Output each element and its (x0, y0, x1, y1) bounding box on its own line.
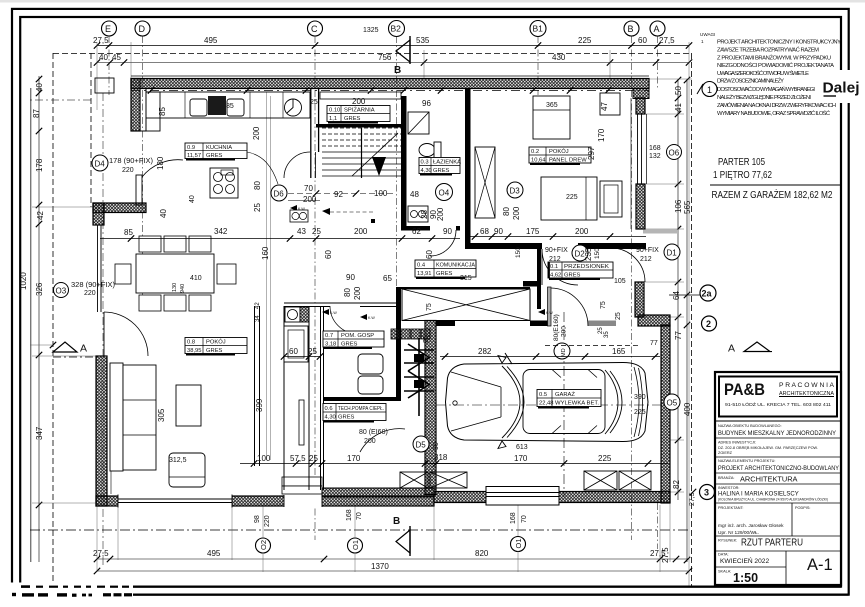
lintel dashed line under top wall (131, 90, 649, 92)
bottom dashed outline (53, 585, 691, 587)
svg-text:100: 100 (374, 189, 388, 198)
living room left exterior wall (96, 356, 107, 506)
kitchen sink right basin (227, 99, 244, 116)
svg-text:2a: 2a (702, 289, 713, 299)
lintel crossed box 0 (400, 472, 428, 488)
door D4 swing (142, 160, 183, 177)
svg-text:WYLEWKA BET.: WYLEWKA BET. (555, 401, 599, 407)
hood crease lines (451, 372, 501, 431)
svg-text:PANEL DREW: PANEL DREW (549, 158, 587, 164)
svg-text:ZAMÓWIENIA NA OKNA I DRZW ZWER: ZAMÓWIENIA NA OKNA I DRZW ZWERYFIKOWAĆ I… (717, 102, 836, 109)
svg-text:305: 305 (157, 408, 166, 422)
bedroom desk (600, 93, 620, 115)
wall slot (299, 400, 304, 445)
svg-text:4,62: 4,62 (550, 273, 561, 279)
svg-text:SPIŻARNIA: SPIŻARNIA (344, 107, 375, 114)
svg-text:PRZEDSIONEK: PRZEDSIONEK (564, 264, 609, 270)
svg-text:225: 225 (598, 454, 612, 463)
bedroom left partition (465, 89, 471, 249)
svg-text:170: 170 (514, 454, 528, 463)
svg-text:B: B (393, 516, 400, 527)
svg-text:45: 45 (112, 53, 121, 62)
top dimension line 2 (97, 62, 689, 64)
svg-text:Z PROJEKTAMI BRANŻOWYMI. W PRZ: Z PROJEKTAMI BRANŻOWYMI. W PRZYPADKU (717, 55, 831, 62)
grid bubble B2 (389, 21, 405, 37)
hidden grid dash line x103 (102, 93, 104, 568)
svg-text:400: 400 (683, 402, 692, 416)
window O3 glazing (97, 225, 99, 312)
windshield arcs (502, 366, 520, 438)
notes paragraph (717, 40, 841, 118)
svg-text:B: B (394, 65, 401, 76)
svg-text:80: 80 (253, 181, 262, 190)
grid line C (314, 36, 316, 540)
svg-text:170: 170 (347, 454, 361, 463)
bottom bubble O1 (348, 538, 363, 553)
svg-text:DOSTOSOWAĆ DO WYMAGAŃ WYBRANEG: DOSTOSOWAĆ DO WYMAGAŃ WYBRANEGI (717, 86, 815, 93)
svg-text:D1: D1 (667, 249, 678, 258)
svg-text:O3: O3 (56, 287, 67, 296)
ref circle D4 (92, 155, 108, 171)
svg-text:495: 495 (207, 549, 221, 558)
svg-text:85: 85 (158, 107, 167, 116)
svg-text:90: 90 (346, 273, 355, 282)
bathroom bottom partition (401, 226, 460, 231)
svg-text:40: 40 (159, 209, 168, 218)
svg-text:85: 85 (226, 103, 234, 110)
svg-text:312,5: 312,5 (169, 457, 187, 464)
left dashed outline (52, 53, 54, 586)
svg-text:0.9: 0.9 (187, 145, 195, 151)
garage left wall (425, 321, 436, 495)
svg-text:GRES: GRES (436, 271, 453, 277)
svg-text:11,57: 11,57 (187, 153, 201, 159)
headlight (453, 401, 457, 405)
car in garage (446, 353, 649, 449)
top dimension line 1 (97, 45, 689, 47)
svg-text:BUDYNEK MIESZKALNY JEDNORODZIN: BUDYNEK MIESZKALNY JEDNORODZINNY (718, 430, 836, 437)
svg-text:105: 105 (614, 278, 626, 285)
svg-text:200: 200 (512, 206, 521, 220)
svg-text:220: 220 (84, 290, 96, 297)
svg-text:82: 82 (672, 480, 681, 489)
label box POKOJ living (185, 338, 247, 355)
svg-text:430: 430 (552, 53, 566, 62)
grid line B2 (396, 36, 398, 290)
garage top wall segments (436, 321, 455, 327)
svg-text:820: 820 (475, 549, 489, 558)
svg-text:K.W: K.W (330, 311, 337, 315)
section marker B bottom (393, 516, 410, 556)
svg-text:1: 1 (701, 39, 704, 44)
ref circle O6 (667, 145, 682, 160)
svg-text:80 (EI60): 80 (EI60) (359, 429, 388, 436)
svg-text:91-510 ŁÓDŹ UL. KRECIA 7 TEL.: 91-510 ŁÓDŹ UL. KRECIA 7 TEL. 603 802 41… (725, 401, 831, 408)
left wall step stub (93, 203, 146, 213)
top roof edge line (131, 75, 649, 77)
bedroom tall closet with X (475, 147, 495, 218)
svg-text:O6: O6 (669, 149, 680, 158)
ref circle D1 (664, 244, 680, 260)
tech room top partition (324, 397, 401, 401)
car antenna (505, 353, 512, 364)
ref circle O5 garage right (664, 394, 680, 410)
svg-text:2: 2 (706, 319, 711, 329)
svg-text:132: 132 (649, 153, 661, 160)
section marker A left (50, 342, 98, 357)
svg-text:0.1: 0.1 (550, 264, 558, 270)
bottom-left frame fade (watermark) (0, 583, 849, 607)
svg-text:K.W: K.W (546, 311, 553, 315)
svg-text:170: 170 (597, 128, 606, 142)
door D6 swing (284, 152, 310, 178)
svg-text:1: 1 (707, 85, 712, 95)
svg-text:ADRES INWESTYCJI:: ADRES INWESTYCJI: (718, 441, 756, 445)
svg-text:495: 495 (204, 36, 218, 45)
lintel crossed box 2 (584, 471, 617, 490)
svg-text:60: 60 (289, 347, 298, 356)
niche lintel crossed box (402, 289, 530, 321)
svg-text:UWAGI: UWAGI (700, 32, 715, 37)
door EI60 swing (551, 288, 588, 326)
garage centerlines (563, 312, 565, 497)
svg-text:175: 175 (526, 227, 540, 236)
svg-text:1020: 1020 (19, 272, 28, 290)
svg-text:D: D (139, 24, 146, 34)
left roof dashed step (90, 53, 92, 207)
kitchen-stairs partition (double line) (310, 89, 312, 178)
bedroom wardrobe top (533, 96, 570, 139)
svg-text:75: 75 (600, 301, 607, 309)
corridor bottom partition east (396, 287, 530, 289)
svg-text:70: 70 (304, 184, 313, 193)
ref circle O3 (54, 283, 69, 298)
grid line B (631, 36, 633, 540)
dining chairs bottom (139, 295, 161, 311)
svg-text:77: 77 (674, 331, 683, 340)
exterior step at door D1 (grey) (643, 230, 678, 234)
svg-text:390: 390 (634, 394, 646, 401)
ref circle D5 (413, 436, 429, 452)
svg-text:1,1: 1,1 (329, 116, 337, 122)
dining chairs top (139, 236, 161, 252)
svg-text:A-1: A-1 (807, 556, 833, 574)
grid bubble C (308, 21, 323, 36)
hatched cabinet (300, 307, 309, 322)
svg-text:GRES: GRES (564, 273, 581, 279)
svg-text:KOMUNIKACJA: KOMUNIKACJA (436, 263, 475, 269)
svg-text:150: 150 (515, 247, 522, 258)
entrance steps (282, 477, 322, 486)
grid bubble B (624, 21, 639, 36)
svg-text:GRES: GRES (341, 342, 358, 348)
left upper exterior wall (131, 79, 140, 132)
svg-text:KWIECIEŃ 2022: KWIECIEŃ 2022 (720, 556, 769, 565)
svg-text:212: 212 (549, 256, 561, 263)
heat pump riser tree (404, 338, 434, 416)
window O6 glazing (637, 114, 639, 184)
svg-text:168: 168 (649, 145, 661, 152)
label box POM GOSP (323, 331, 384, 348)
svg-text:0.8: 0.8 (187, 340, 195, 346)
svg-text:A: A (728, 343, 735, 355)
svg-text:27,5: 27,5 (93, 549, 109, 558)
garage door opening (486, 487, 559, 506)
label box POKOJ bedroom (529, 147, 591, 164)
ref circle O4 (436, 184, 453, 201)
svg-text:POM. GOSP: POM. GOSP (341, 333, 374, 339)
svg-text:940: 940 (180, 284, 186, 293)
svg-text:0.2: 0.2 (531, 149, 539, 155)
right dim chain 1 (677, 79, 679, 500)
svg-text:200: 200 (353, 286, 362, 300)
svg-text:90+FIX: 90+FIX (636, 247, 659, 254)
bedroom nightstand (600, 181, 622, 217)
svg-text:168: 168 (346, 509, 353, 521)
svg-text:PODPIS:: PODPIS: (795, 506, 810, 510)
interior dim line kitchen-corridor (288, 193, 396, 195)
bottom dim line 1 (97, 558, 689, 560)
svg-text:50: 50 (674, 86, 683, 95)
svg-text:282: 282 (478, 347, 492, 356)
svg-text:410: 410 (190, 275, 202, 282)
svg-text:ZGIERZ: ZGIERZ (718, 451, 733, 455)
svg-text:P R A C O W N I A: P R A C O W N I A (779, 383, 834, 389)
door EI60 przedsionek-garage leaf (548, 287, 552, 326)
grid line B1 (537, 36, 539, 95)
svg-text:MD: MD (561, 348, 567, 357)
svg-text:48: 48 (410, 190, 419, 199)
svg-text:ZAWSZE TRZEBA ROZPATRYWAĆ RAZE: ZAWSZE TRZEBA ROZPATRYWAĆ RAZEM (717, 47, 819, 54)
svg-text:613: 613 (516, 444, 528, 451)
grid bubble E (102, 21, 117, 36)
svg-text:GRES: GRES (206, 153, 223, 159)
svg-text:3,18: 3,18 (325, 342, 336, 348)
door D1 swing (612, 248, 645, 282)
svg-text:RAZEM Z GARAŻEM 182,62 M2: RAZEM Z GARAŻEM 182,62 M2 (712, 188, 833, 201)
top-right corner wall block (633, 89, 649, 99)
door O3 swing arc (104, 312, 148, 356)
svg-text:TECH.POMPA CIEPŁ.: TECH.POMPA CIEPŁ. (338, 406, 384, 412)
svg-text:42: 42 (36, 211, 45, 220)
svg-text:200: 200 (561, 326, 568, 337)
svg-text:25: 25 (309, 454, 318, 463)
svg-text:70: 70 (521, 515, 528, 523)
kitchen corner inner face (131, 89, 146, 131)
lintel crossed box 1 (430, 472, 467, 488)
svg-text:13,91: 13,91 (417, 271, 432, 277)
svg-text:A: A (654, 24, 660, 34)
rear window arcs (605, 370, 618, 434)
svg-text:GRES: GRES (338, 415, 355, 421)
door D5 swing (360, 429, 405, 452)
svg-text:399: 399 (255, 398, 264, 412)
svg-text:40: 40 (189, 195, 196, 203)
svg-text:200: 200 (354, 227, 368, 236)
svg-text:KUCHNIA: KUCHNIA (206, 145, 232, 151)
svg-text:347: 347 (35, 426, 44, 440)
svg-text:34: 34 (255, 315, 261, 322)
svg-text:168: 168 (510, 512, 517, 524)
svg-text:PROJEKT ARCHITEKTONICZNO-BUDOW: PROJEKT ARCHITEKTONICZNO-BUDOWLANY (718, 465, 840, 472)
svg-text:O1: O1 (514, 538, 523, 548)
svg-text:85: 85 (124, 228, 133, 237)
svg-text:87: 87 (32, 109, 41, 118)
svg-text:D5: D5 (416, 441, 427, 450)
top dashed outline line (53, 53, 691, 55)
svg-text:326: 326 (35, 282, 44, 296)
svg-text:60: 60 (324, 250, 333, 259)
svg-text:25: 25 (253, 203, 262, 212)
trunk curves (634, 367, 639, 437)
svg-text:25: 25 (312, 227, 321, 236)
svg-text:342: 342 (214, 227, 228, 236)
svg-text:DATA:: DATA: (718, 553, 729, 557)
svg-text:0.5: 0.5 (539, 392, 547, 398)
grid line D (142, 36, 144, 300)
svg-text:200: 200 (436, 207, 445, 221)
svg-text:(KOLONIA BRUŻYCA UL. CHABROWA: (KOLONIA BRUŻYCA UL. CHABROWA 24 95/70 A… (718, 497, 828, 502)
svg-text:43: 43 (297, 227, 306, 236)
svg-text:98: 98 (254, 515, 261, 523)
pom gosp left partition (320, 306, 322, 490)
svg-text:68: 68 (480, 227, 489, 236)
bathroom vent shaft top (408, 112, 429, 134)
top screen edge (0, 0, 865, 3)
right mid exterior wall (635, 282, 644, 317)
svg-text:1:50: 1:50 (733, 571, 758, 585)
door D2 swing (542, 249, 578, 285)
svg-text:Dalej: Dalej (823, 80, 860, 97)
svg-text:41: 41 (674, 103, 683, 112)
svg-text:O4: O4 (439, 189, 450, 198)
svg-text:235: 235 (584, 247, 593, 261)
svg-text:60: 60 (425, 250, 434, 259)
left dim chain 3 (38, 76, 40, 205)
left dim line total 1020 (30, 88, 32, 562)
washbasin pair (408, 206, 428, 222)
svg-text:130: 130 (172, 283, 178, 292)
stairs up arrow head (372, 157, 386, 176)
svg-text:225: 225 (578, 36, 592, 45)
svg-text:K.W: K.W (368, 316, 375, 320)
svg-text:225: 225 (634, 409, 646, 416)
kitchen counter left run (146, 92, 160, 131)
logo box PA&B (719, 377, 837, 417)
bathroom door swing (430, 230, 456, 256)
svg-text:B1: B1 (533, 24, 544, 34)
svg-text:200: 200 (364, 438, 376, 445)
svg-text:0.4: 0.4 (417, 263, 426, 269)
right dashed outline (691, 53, 693, 586)
svg-text:INWESTOR:: INWESTOR: (718, 486, 739, 490)
svg-text:365: 365 (546, 102, 558, 109)
svg-text:565: 565 (683, 200, 692, 214)
section marker B top (394, 36, 410, 76)
svg-text:POKÓJ: POKÓJ (206, 339, 226, 346)
ref circle D3 (507, 182, 523, 198)
svg-text:315: 315 (460, 275, 472, 282)
svg-text:200: 200 (252, 126, 261, 140)
spizarnia bottom partition (316, 124, 402, 128)
svg-text:GARAŻ: GARAŻ (555, 391, 575, 398)
svg-text:80: 80 (343, 288, 352, 297)
svg-text:297: 297 (587, 146, 596, 160)
door D4 leaf (136, 175, 142, 205)
svg-text:PA&B: PA&B (724, 381, 765, 399)
ref circle 2a (700, 285, 716, 301)
svg-text:0.6: 0.6 (325, 406, 333, 412)
svg-text:mgr inż. arch. Jarosław Głose: mgr inż. arch. Jarosław Głosek (718, 523, 784, 529)
svg-text:165: 165 (612, 347, 626, 356)
right dim line totals (686, 79, 688, 562)
grid column marker square (95, 78, 114, 93)
roof pillars (552, 370, 597, 434)
svg-text:90+FIX: 90+FIX (545, 247, 568, 254)
ref circle D6 (271, 185, 287, 201)
Dalej overlay link (816, 70, 865, 103)
lintel crossed box 3 (619, 471, 651, 490)
ref circle 3 (700, 485, 715, 500)
svg-text:70: 70 (356, 512, 363, 520)
garage bottom exterior wall (434, 492, 670, 503)
svg-text:27,5: 27,5 (661, 547, 670, 563)
svg-text:27,5: 27,5 (659, 36, 675, 45)
svg-text:D4: D4 (95, 160, 106, 169)
svg-text:BRANŻA:: BRANŻA: (718, 475, 734, 480)
svg-text:200: 200 (303, 195, 317, 204)
svg-text:40: 40 (99, 53, 108, 62)
grid bubble A (650, 21, 665, 36)
svg-text:47: 47 (600, 102, 609, 111)
svg-text:90: 90 (433, 442, 440, 450)
svg-text:220: 220 (264, 515, 271, 527)
svg-text:4,30: 4,30 (421, 168, 432, 174)
svg-text:1370: 1370 (371, 562, 389, 571)
stairs (322, 128, 401, 178)
svg-text:0.3: 0.3 (421, 160, 429, 166)
svg-text:RZUT PARTERU: RZUT PARTERU (741, 538, 803, 549)
svg-text:ARCHITEKTURA: ARCHITEKTURA (740, 475, 798, 484)
svg-text:B2: B2 (391, 24, 402, 34)
bottom bubble O1 garage (511, 537, 526, 552)
svg-text:106: 106 (674, 199, 683, 213)
svg-text:62: 62 (412, 227, 421, 236)
ref circle D2 (572, 245, 588, 261)
svg-text:200: 200 (575, 227, 589, 236)
svg-text:90: 90 (494, 227, 503, 236)
coffee table (176, 385, 201, 426)
label box KOMUNIKACJA (415, 260, 476, 277)
washer (285, 307, 300, 322)
kuchnia label leader (247, 152, 278, 184)
right upper exterior wall (above window O6) (636, 98, 645, 114)
svg-text:PROJEKTANT:: PROJEKTANT: (718, 506, 744, 510)
svg-text:756: 756 (378, 53, 392, 62)
kitchen sink left basin (190, 99, 207, 116)
porch bottom wall band (322, 488, 434, 497)
left dim line 2 (38, 205, 40, 562)
svg-text:160: 160 (261, 246, 270, 260)
svg-text:42: 42 (255, 302, 261, 309)
svg-text:10,64: 10,64 (531, 158, 546, 164)
garage right exterior wall (661, 325, 670, 503)
svg-text:25: 25 (615, 312, 622, 320)
top exterior wall (131, 79, 649, 89)
svg-text:O2: O2 (259, 540, 268, 550)
svg-text:225: 225 (566, 194, 578, 201)
svg-text:DRZW Z OSCEZNICAMI NALEŻY: DRZW Z OSCEZNICAMI NALEŻY (717, 78, 784, 85)
